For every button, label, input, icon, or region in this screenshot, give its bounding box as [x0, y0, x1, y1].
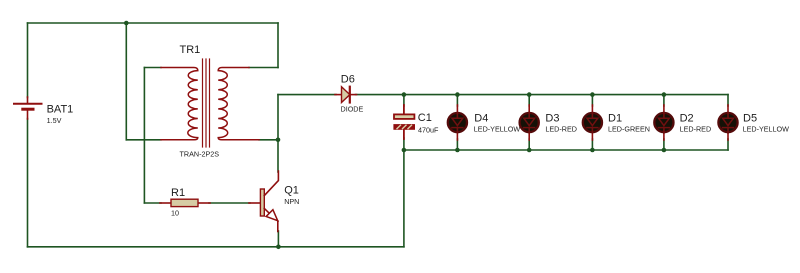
diode D6: [335, 87, 357, 103]
wire D1 bottom drop: [591, 139, 593, 150]
svg-text:D3: D3: [545, 112, 559, 124]
wire diode branch vertical to collector: [277, 95, 279, 172]
svg-text:BAT1: BAT1: [47, 104, 74, 116]
svg-text:LED-RED: LED-RED: [680, 124, 712, 133]
LED D4: [448, 105, 467, 140]
svg-text:R1: R1: [171, 187, 185, 199]
junction dot at (126,23): [124, 21, 129, 26]
junction dot D1 top: [590, 92, 595, 97]
wire top horizontal rail: [28, 22, 279, 24]
wire base branch horizontal to R1: [144, 202, 161, 204]
LED D3: [520, 105, 539, 140]
battery BAT1 symbol: [14, 97, 42, 119]
wire R1 to Q1 base: [209, 202, 250, 204]
svg-text:1.5V: 1.5V: [47, 116, 62, 125]
junction dot D3 top: [527, 92, 532, 97]
svg-text:TR1: TR1: [180, 44, 201, 56]
junction dot D2 bottom: [662, 148, 667, 153]
wire secondary bottom lead (green part): [259, 139, 278, 141]
junction dot D4 bottom: [455, 148, 460, 153]
svg-text:470uF: 470uF: [418, 126, 439, 135]
wire C1 bottom drop: [403, 138, 405, 150]
wire D2 bottom drop: [663, 139, 665, 150]
svg-text:Q1: Q1: [284, 185, 299, 197]
svg-text:LED-RED: LED-RED: [545, 124, 577, 133]
svg-text:TRAN-2P2S: TRAN-2P2S: [180, 150, 220, 159]
svg-text:NPN: NPN: [284, 197, 299, 206]
transistor Q1: [249, 171, 278, 232]
wire LED bottom rail: [404, 149, 728, 151]
wire emitter vertical (green part): [277, 231, 279, 247]
capacitor C1: [394, 105, 414, 139]
svg-text:10: 10: [171, 209, 179, 218]
LED D5: [718, 105, 737, 140]
junction dot C1 top: [402, 92, 407, 97]
wire from node to diode anode: [278, 94, 336, 96]
wire base branch vertical: [143, 68, 145, 204]
wire secondary top lead (green part): [249, 67, 278, 69]
wire bottom horizontal return: [28, 246, 404, 248]
resistor R1: [160, 199, 210, 206]
LED D1: [583, 105, 602, 140]
wire D3 bottom drop: [528, 139, 530, 150]
junction dot C1 bottom: [402, 148, 407, 153]
wire diode cathode to LED top rail: [356, 94, 729, 96]
wire battery top vertical: [27, 23, 29, 98]
wire primary top lead (green part): [144, 67, 161, 69]
wire D4 bottom drop: [456, 139, 458, 150]
junction dot D3 bottom: [527, 148, 532, 153]
wire D5 top drop: [727, 95, 729, 106]
svg-text:D5: D5: [743, 112, 757, 124]
wire secondary top to top rail: [277, 23, 279, 68]
junction dot D2 top: [662, 92, 667, 97]
svg-text:DIODE: DIODE: [341, 105, 364, 114]
transformer TR1 primary winding: [161, 68, 198, 140]
svg-text:D4: D4: [474, 112, 488, 124]
junction dot D4 top: [455, 92, 460, 97]
svg-text:C1: C1: [418, 112, 432, 124]
wire vertical from top rail to primary bottom: [125, 23, 127, 140]
svg-text:LED-GREEN: LED-GREEN: [608, 124, 650, 133]
wire D4 top drop: [456, 95, 458, 106]
wire primary bottom horizontal (green part): [126, 139, 161, 141]
wire C1 top drop: [403, 95, 405, 106]
svg-text:D1: D1: [608, 112, 622, 124]
wire D5 bottom drop: [727, 139, 729, 150]
wire D2 top drop: [663, 95, 665, 106]
junction dot D1 bottom: [590, 148, 595, 153]
svg-text:LED-YELLOW: LED-YELLOW: [474, 124, 521, 133]
wire D3 top drop: [528, 95, 530, 106]
svg-text:D2: D2: [680, 112, 694, 124]
transformer TR1 secondary winding: [218, 68, 259, 140]
transformer TR1 core: [203, 59, 210, 147]
wire battery bottom vertical: [27, 119, 29, 247]
wire D1 top drop: [591, 95, 593, 106]
svg-text:D6: D6: [341, 74, 355, 86]
junction dot at (278,140): [276, 138, 281, 143]
LED D2: [654, 105, 673, 140]
wire return vertical from bottom rail: [403, 150, 405, 247]
junction dot emitter at bottom: [276, 245, 281, 250]
svg-text:LED-YELLOW: LED-YELLOW: [743, 124, 790, 133]
